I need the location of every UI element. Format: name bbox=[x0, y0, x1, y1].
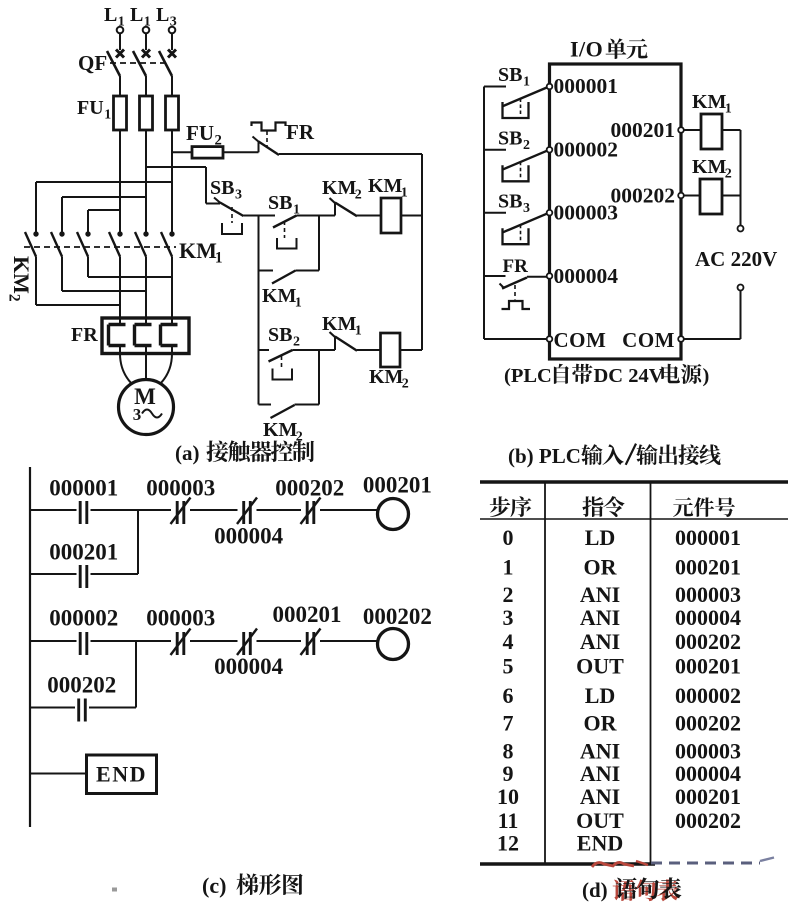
svg-text:OR: OR bbox=[584, 711, 618, 736]
svg-text:000201: 000201 bbox=[49, 540, 118, 565]
svg-text:COM: COM bbox=[622, 328, 675, 352]
svg-text:2: 2 bbox=[725, 167, 732, 182]
svg-text:KM: KM bbox=[368, 175, 403, 197]
svg-text:000201: 000201 bbox=[675, 654, 741, 679]
svg-text:(d): (d) bbox=[582, 878, 608, 902]
svg-text:1: 1 bbox=[104, 108, 111, 123]
svg-text:KM: KM bbox=[369, 366, 404, 388]
svg-text:1: 1 bbox=[725, 102, 732, 117]
svg-text:000003: 000003 bbox=[146, 606, 215, 631]
svg-text:000002: 000002 bbox=[675, 683, 741, 708]
svg-text:L: L bbox=[156, 4, 169, 26]
svg-text:): ) bbox=[703, 365, 710, 387]
svg-text:END: END bbox=[96, 762, 147, 787]
svg-text:1: 1 bbox=[215, 250, 223, 267]
svg-text:FR: FR bbox=[503, 256, 529, 277]
svg-text:SB: SB bbox=[210, 177, 234, 199]
svg-text:000004: 000004 bbox=[675, 761, 741, 786]
svg-text:3: 3 bbox=[523, 201, 530, 216]
svg-text:FU: FU bbox=[77, 97, 104, 119]
svg-text:1: 1 bbox=[523, 75, 530, 90]
svg-text:KM: KM bbox=[322, 313, 357, 335]
svg-text:000004: 000004 bbox=[214, 654, 284, 679]
svg-text:(c): (c) bbox=[202, 873, 226, 898]
svg-text:000002: 000002 bbox=[554, 138, 619, 162]
svg-text:SB: SB bbox=[268, 192, 292, 214]
svg-text:000201: 000201 bbox=[675, 784, 741, 809]
svg-text:000202: 000202 bbox=[675, 808, 741, 833]
svg-text:KM: KM bbox=[692, 156, 727, 178]
svg-text:000202: 000202 bbox=[47, 673, 116, 698]
svg-text:FR: FR bbox=[286, 120, 315, 144]
svg-text:SB: SB bbox=[498, 128, 522, 150]
svg-text:SB: SB bbox=[268, 324, 292, 346]
svg-text:ANI: ANI bbox=[580, 784, 620, 809]
svg-text:000202: 000202 bbox=[363, 604, 432, 629]
svg-text:ANI: ANI bbox=[580, 761, 620, 786]
svg-text:6: 6 bbox=[503, 683, 514, 708]
svg-text:000202: 000202 bbox=[675, 629, 741, 654]
svg-text:FU: FU bbox=[186, 121, 214, 145]
svg-text:000004: 000004 bbox=[554, 264, 619, 288]
svg-text:2: 2 bbox=[293, 335, 300, 350]
svg-text:4: 4 bbox=[503, 629, 514, 654]
svg-text:AC 220V: AC 220V bbox=[695, 247, 777, 271]
svg-text:(b) PLC: (b) PLC bbox=[508, 444, 581, 468]
svg-text:2: 2 bbox=[355, 188, 362, 203]
svg-text:000001: 000001 bbox=[554, 74, 619, 98]
svg-text:000002: 000002 bbox=[49, 606, 118, 631]
svg-text:2: 2 bbox=[215, 133, 222, 149]
svg-text:3: 3 bbox=[133, 405, 142, 424]
svg-text:QF: QF bbox=[78, 51, 107, 75]
svg-text:1: 1 bbox=[295, 296, 302, 311]
svg-text:000202: 000202 bbox=[675, 711, 741, 736]
svg-text:FR: FR bbox=[71, 324, 98, 346]
svg-text:KM: KM bbox=[322, 177, 357, 199]
svg-text:1: 1 bbox=[503, 554, 514, 579]
svg-text:000201: 000201 bbox=[611, 118, 676, 142]
svg-text:2: 2 bbox=[296, 430, 303, 445]
svg-text:OR: OR bbox=[584, 554, 618, 579]
svg-text:(PLC: (PLC bbox=[504, 365, 552, 387]
svg-text:000003: 000003 bbox=[146, 476, 215, 501]
svg-text:DC 24V: DC 24V bbox=[594, 365, 664, 387]
svg-text:1: 1 bbox=[401, 186, 408, 201]
svg-text:COM: COM bbox=[554, 328, 607, 352]
svg-text:000201: 000201 bbox=[675, 554, 741, 579]
svg-text:LD: LD bbox=[585, 683, 616, 708]
svg-text:KM: KM bbox=[262, 285, 297, 307]
svg-text:OUT: OUT bbox=[576, 654, 624, 679]
svg-text:12: 12 bbox=[497, 830, 519, 855]
svg-text:3: 3 bbox=[503, 605, 514, 630]
svg-text:1: 1 bbox=[355, 324, 362, 339]
svg-text:000001: 000001 bbox=[675, 525, 741, 550]
svg-text:KM: KM bbox=[263, 419, 298, 441]
svg-text:ANI: ANI bbox=[580, 629, 620, 654]
svg-text:SB: SB bbox=[498, 191, 522, 213]
svg-text:END: END bbox=[577, 830, 623, 855]
svg-text:KM: KM bbox=[692, 91, 727, 113]
svg-text:000201: 000201 bbox=[273, 602, 342, 627]
svg-text:000202: 000202 bbox=[611, 184, 676, 208]
svg-text:LD: LD bbox=[585, 525, 616, 550]
svg-text:KM: KM bbox=[179, 238, 217, 263]
svg-text:2: 2 bbox=[402, 377, 409, 392]
svg-text:5: 5 bbox=[503, 654, 514, 679]
svg-text:000001: 000001 bbox=[49, 476, 118, 501]
svg-text:2: 2 bbox=[503, 582, 514, 607]
svg-text:000202: 000202 bbox=[275, 476, 344, 501]
svg-text:ANI: ANI bbox=[580, 582, 620, 607]
svg-text:000003: 000003 bbox=[675, 582, 741, 607]
svg-text:3: 3 bbox=[235, 188, 242, 203]
svg-text:000201: 000201 bbox=[363, 473, 432, 498]
svg-text:000004: 000004 bbox=[675, 605, 741, 630]
svg-text:SB: SB bbox=[498, 64, 522, 86]
svg-text:7: 7 bbox=[503, 711, 514, 736]
svg-text:ANI: ANI bbox=[580, 605, 620, 630]
svg-text:0: 0 bbox=[503, 525, 514, 550]
svg-text:2: 2 bbox=[523, 138, 530, 153]
svg-text:000004: 000004 bbox=[214, 524, 284, 549]
svg-text:I/O: I/O bbox=[570, 37, 603, 62]
svg-text:9: 9 bbox=[503, 761, 514, 786]
svg-text:L: L bbox=[130, 4, 143, 26]
svg-text:L: L bbox=[104, 4, 117, 26]
svg-text:(a): (a) bbox=[175, 441, 200, 465]
svg-text:000003: 000003 bbox=[554, 201, 619, 225]
svg-text:10: 10 bbox=[497, 784, 519, 809]
